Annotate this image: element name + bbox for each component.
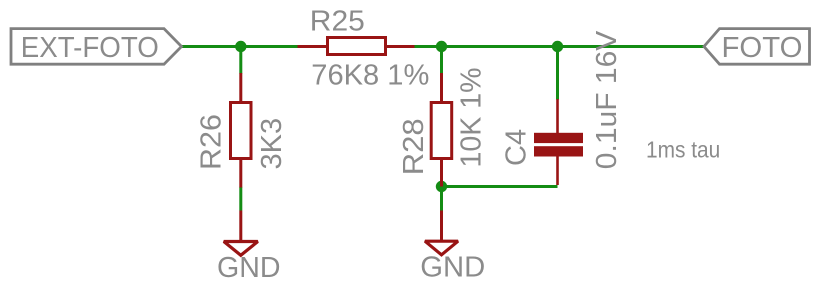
resistor R28 body xyxy=(431,103,452,159)
wire junction C down to C4 xyxy=(556,47,559,100)
junction dot B xyxy=(436,41,447,52)
wire junction B down to R28 xyxy=(440,47,443,74)
svg-text:1ms tau: 1ms tau xyxy=(646,137,720,163)
ground GND2 pin xyxy=(440,211,443,241)
wire R25 to FOTO xyxy=(414,45,705,48)
capacitor C4 bottom plate xyxy=(534,146,583,156)
svg-text:3K3: 3K3 xyxy=(256,118,288,170)
svg-text:R26: R26 xyxy=(196,114,228,170)
capacitor C4 bottom lead xyxy=(556,156,559,185)
svg-text:GND: GND xyxy=(217,252,281,284)
resistor R25 body xyxy=(328,38,386,55)
resistor R26 leads xyxy=(239,73,242,103)
wire R26 to GND xyxy=(239,187,242,211)
wire net EXT-FOTO to R25 xyxy=(182,45,298,48)
svg-text:FOTO: FOTO xyxy=(722,32,803,64)
flag EXT-FOTO xyxy=(11,29,182,65)
svg-text:76K8 1%: 76K8 1% xyxy=(311,59,429,91)
svg-text:R28: R28 xyxy=(398,118,430,175)
ground GND1 triangle xyxy=(224,242,258,256)
svg-text:0.1uF 16V: 0.1uF 16V xyxy=(591,30,623,169)
wire R28 to GND xyxy=(440,187,443,211)
svg-text:C4: C4 xyxy=(501,129,533,166)
svg-text:R25: R25 xyxy=(310,6,365,38)
svg-text:GND: GND xyxy=(420,252,485,284)
ground GND2 triangle xyxy=(425,241,458,255)
resistor R26 body xyxy=(231,103,252,159)
wire bottom node R28 to C4 xyxy=(442,185,558,188)
junction dot D (below R28) xyxy=(436,181,447,192)
junction dot A xyxy=(235,41,246,52)
resistor R28 leads xyxy=(440,73,443,103)
resistor R25 leads xyxy=(298,45,328,48)
wire junction A down to R26 xyxy=(239,47,242,74)
flag FOTO xyxy=(704,29,810,65)
capacitor C4 top plate xyxy=(534,133,583,143)
capacitor C4 top lead xyxy=(556,99,559,134)
junction dot C xyxy=(552,41,563,52)
ground GND1 pin xyxy=(239,211,242,241)
svg-text:10K 1%: 10K 1% xyxy=(456,68,488,168)
svg-text:EXT-FOTO: EXT-FOTO xyxy=(21,32,159,64)
